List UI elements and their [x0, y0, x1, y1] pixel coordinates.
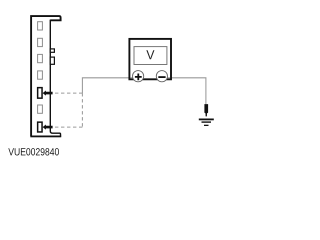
caption VUE0029840	[8, 148, 59, 155]
wire: junction up and right to voltmeter + terminal	[82, 78, 132, 93]
wire stub inside box from - terminal	[166, 77, 170, 79]
voltmeter + terminal	[133, 71, 144, 82]
connector bottom line	[30, 136, 61, 138]
voltmeter V label	[146, 50, 154, 59]
dashed vertical lead between pin 5 and pin 7 lines	[81, 93, 83, 127]
dashed lead from pin 7 to junction	[55, 126, 82, 128]
connector body outline	[31, 16, 60, 137]
dashed lead from pin 5 to junction	[55, 92, 82, 94]
pin 1	[38, 22, 43, 30]
ground bar 3	[204, 125, 209, 126]
voltmeter display window	[134, 47, 167, 65]
pin 6	[38, 105, 43, 113]
pin 5 (test point, bold)	[38, 88, 42, 99]
pin 7 (test point, bold)	[38, 122, 42, 132]
voltmeter - terminal	[156, 71, 167, 82]
connector lock tab 2 (right edge)	[50, 57, 54, 64]
ground bar 1	[199, 119, 214, 121]
probe arrow into pin 5	[43, 91, 53, 96]
pin 4	[38, 71, 43, 79]
pin 3	[38, 54, 43, 62]
pin 2	[38, 38, 43, 46]
wire stub inside box to + terminal	[130, 77, 134, 79]
voltmeter box	[129, 39, 171, 79]
wire: voltmeter - terminal to ground drop	[167, 78, 206, 105]
connector lock tab 1 (right edge)	[50, 49, 54, 52]
probe arrow into pin 7	[43, 125, 53, 130]
ground bar 2	[202, 121, 212, 122]
ground terminal block	[204, 104, 208, 116]
